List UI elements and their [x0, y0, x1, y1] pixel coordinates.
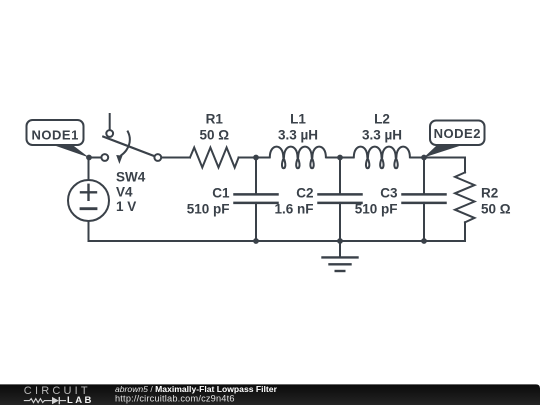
svg-text:SW4: SW4	[116, 170, 146, 185]
svg-text:C3: C3	[380, 185, 398, 200]
switch throw circle (top)	[106, 130, 113, 137]
wire: switch common to R1	[161, 157, 190, 159]
switch blade	[103, 137, 154, 157]
wire: R2 top vertical	[464, 158, 466, 173]
svg-text:V4: V4	[116, 184, 133, 199]
svg-text:3.3 µH: 3.3 µH	[362, 127, 402, 142]
svg-text:1.6 nF: 1.6 nF	[274, 201, 313, 216]
svg-text:C2: C2	[296, 185, 313, 200]
svg-text:R1: R1	[206, 112, 224, 127]
svg-text:LAB: LAB	[67, 395, 94, 405]
switch common terminal circle	[154, 154, 161, 161]
svg-text:NODE1: NODE1	[32, 128, 79, 143]
svg-text:50 Ω: 50 Ω	[200, 127, 230, 142]
inductor L1	[270, 147, 326, 169]
wire: R1 to L1	[239, 157, 270, 159]
node junction dot C2 bottom / ground	[337, 238, 343, 244]
footer bar	[0, 384, 540, 405]
switch arrowhead	[116, 155, 122, 164]
svg-text:L2: L2	[374, 112, 390, 127]
switch motion arc	[121, 132, 130, 156]
svg-text:50 Ω: 50 Ω	[481, 202, 511, 217]
wire: L1 to L2	[327, 157, 354, 159]
svg-text:NODE2: NODE2	[434, 126, 481, 141]
svg-text:510 pF: 510 pF	[355, 201, 398, 216]
wire: bottom rail	[89, 240, 466, 242]
wire: R2 bottom vertical	[464, 222, 466, 241]
node junction dot C1 top	[253, 155, 259, 161]
wire: V4 bottom lead	[88, 221, 90, 241]
node NODE2 flag	[424, 121, 485, 158]
switch stub (unconnected throw lead)	[109, 114, 111, 130]
resistor R1	[190, 148, 239, 168]
resistor R2	[455, 172, 475, 222]
switch SW4	[101, 114, 161, 164]
svg-text:C1: C1	[212, 185, 230, 200]
logo resistor zigzag	[24, 399, 52, 403]
svg-text:1 V: 1 V	[116, 199, 136, 214]
svg-text:L1: L1	[290, 112, 306, 127]
voltage source V4	[68, 180, 109, 221]
node junction dot C2 top	[337, 155, 343, 161]
logo diode symbol	[52, 397, 59, 404]
capacitor C3	[403, 158, 446, 242]
switch left terminal circle	[101, 154, 108, 161]
inductor L2	[354, 147, 410, 169]
node NODE1 flag	[27, 120, 90, 158]
capacitor C1	[235, 158, 278, 242]
svg-text:http://circuitlab.com/cz9n4t6: http://circuitlab.com/cz9n4t6	[115, 393, 235, 403]
wire: L2 to R2 top	[411, 157, 466, 159]
wire: node1 to switch left terminal	[92, 157, 102, 159]
node junction dot C3 top / NODE2	[421, 155, 427, 161]
svg-text:3.3 µH: 3.3 µH	[278, 127, 318, 142]
svg-text:R2: R2	[481, 186, 498, 201]
wire: V4 top lead	[88, 158, 90, 181]
svg-text:510 pF: 510 pF	[187, 201, 230, 216]
node junction dot C3 bottom	[421, 238, 427, 244]
ground	[323, 241, 358, 271]
labels	[116, 112, 511, 217]
node A junction dot (source/switch)	[86, 155, 92, 161]
capacitor C2	[319, 158, 362, 242]
node junction dot C1 bottom	[253, 238, 259, 244]
